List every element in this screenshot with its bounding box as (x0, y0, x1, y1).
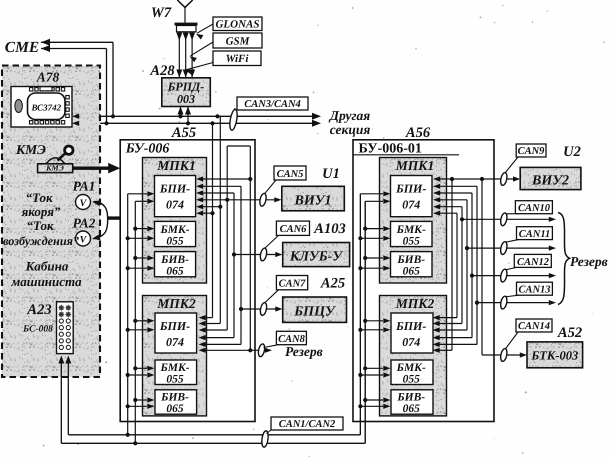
svg-text:CAN10: CAN10 (518, 203, 551, 214)
svg-text:секция: секция (330, 122, 371, 137)
svg-text:ВИУ1: ВИУ1 (294, 194, 332, 209)
svg-text:якоря”: якоря” (21, 204, 61, 219)
svg-text:КЛУБ-У: КЛУБ-У (289, 250, 344, 265)
svg-text:КМЭ: КМЭ (15, 142, 46, 157)
svg-text:074: 074 (402, 198, 420, 212)
svg-text:БПИ-: БПИ- (159, 182, 190, 196)
svg-text:055: 055 (166, 235, 184, 247)
svg-text:074: 074 (166, 198, 184, 212)
svg-text:“Ток: “Ток (25, 190, 52, 205)
svg-text:055: 055 (403, 235, 421, 247)
svg-text:А23: А23 (26, 302, 51, 318)
svg-text:МПК2: МПК2 (395, 296, 435, 311)
svg-text:А78: А78 (36, 70, 60, 85)
svg-text:БПИ-: БПИ- (395, 319, 426, 333)
svg-text:РА1: РА1 (73, 179, 96, 194)
svg-text:машиниста: машиниста (10, 274, 82, 289)
svg-text:Другая: Другая (328, 108, 371, 123)
svg-text:Резерв: Резерв (285, 344, 323, 359)
svg-text:Кабина: Кабина (25, 259, 69, 274)
svg-text:БМК-: БМК- (396, 362, 426, 374)
svg-text:БМК-: БМК- (159, 224, 189, 236)
svg-text:А55: А55 (171, 125, 196, 141)
svg-text:БПЦУ: БПЦУ (293, 305, 337, 320)
svg-text:БИВ-: БИВ- (160, 392, 189, 404)
svg-text:БС-008: БС-008 (22, 325, 53, 335)
svg-text:WiFi: WiFi (226, 53, 250, 65)
svg-text:А25: А25 (320, 276, 345, 292)
svg-text:“Ток: “Ток (26, 218, 53, 233)
svg-text:возбуждения”: возбуждения” (3, 234, 79, 248)
svg-text:065: 065 (403, 266, 421, 278)
svg-text:БПИ-: БПИ- (159, 319, 190, 333)
svg-text:CAN3/CAN4: CAN3/CAN4 (244, 99, 301, 110)
svg-text:А28: А28 (149, 63, 175, 79)
svg-text:БИВ-: БИВ- (160, 254, 189, 266)
svg-text:БТК-003: БТК-003 (530, 349, 578, 363)
svg-text:РА2: РА2 (73, 216, 96, 231)
svg-text:074: 074 (166, 335, 184, 349)
svg-text:CAN13: CAN13 (518, 285, 550, 296)
svg-text:КМЭ: КМЭ (45, 164, 64, 173)
svg-text:МПК1: МПК1 (156, 158, 195, 173)
svg-text:МПК2: МПК2 (156, 296, 196, 311)
svg-text:БИВ-: БИВ- (396, 254, 425, 266)
svg-text:065: 065 (166, 403, 184, 415)
svg-text:CAN14: CAN14 (518, 321, 550, 332)
svg-text:074: 074 (402, 335, 420, 349)
svg-text:БУ-006: БУ-006 (125, 142, 170, 157)
svg-text:CAN9: CAN9 (518, 146, 546, 157)
svg-text:W7: W7 (151, 5, 172, 21)
svg-text:БПИ-: БПИ- (395, 182, 426, 196)
svg-text:003: 003 (177, 92, 195, 106)
svg-text:065: 065 (166, 266, 184, 278)
svg-text:СМЕ: СМЕ (5, 39, 39, 56)
svg-text:БМК-: БМК- (159, 362, 189, 374)
svg-text:CAN1/CAN2: CAN1/CAN2 (279, 419, 336, 430)
svg-text:А52: А52 (557, 325, 582, 341)
svg-text:ВИУ2: ВИУ2 (531, 174, 569, 189)
svg-text:055: 055 (166, 374, 184, 386)
svg-text:055: 055 (403, 374, 421, 386)
svg-text:CAN7: CAN7 (279, 279, 307, 290)
svg-text:GLONAS: GLONAS (215, 19, 259, 31)
svg-text:CAN11: CAN11 (519, 229, 551, 240)
svg-text:GSM: GSM (226, 36, 251, 48)
svg-text:065: 065 (403, 403, 421, 415)
svg-text:А103: А103 (313, 221, 345, 237)
svg-text:А56: А56 (405, 125, 431, 141)
svg-text:ВС3742: ВС3742 (31, 103, 62, 113)
svg-text:CAN5: CAN5 (277, 169, 304, 180)
svg-text:БИВ-: БИВ- (396, 392, 425, 404)
svg-text:Резерв: Резерв (570, 254, 608, 269)
svg-text:U1: U1 (322, 166, 340, 182)
svg-text:БМК-: БМК- (396, 224, 426, 236)
svg-text:МПК1: МПК1 (395, 158, 434, 173)
svg-text:CAN12: CAN12 (517, 257, 550, 268)
svg-text:U2: U2 (563, 144, 581, 160)
svg-text:CAN6: CAN6 (280, 224, 308, 235)
